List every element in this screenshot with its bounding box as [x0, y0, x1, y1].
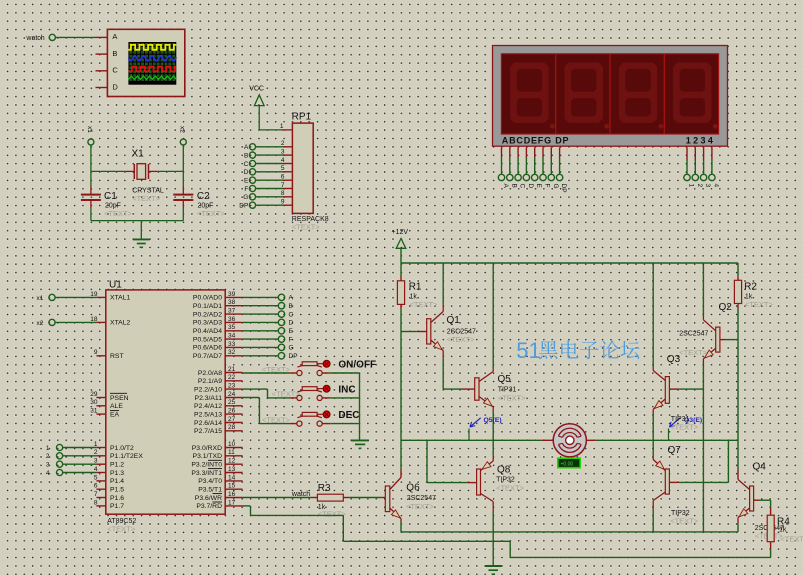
svg-text:<TEXT>: <TEXT>: [104, 209, 133, 218]
svg-text:ALE: ALE: [110, 403, 123, 410]
svg-text:DP: DP: [560, 184, 567, 193]
svg-text:P3.7/RD: P3.7/RD: [196, 503, 222, 510]
svg-text:A: A: [289, 295, 294, 302]
svg-text:<TEXT>: <TEXT>: [410, 300, 439, 309]
svg-text:watch: watch: [291, 491, 310, 498]
svg-text:<TEXT>: <TEXT>: [197, 209, 226, 218]
svg-text:XTAL2: XTAL2: [110, 320, 130, 327]
svg-text:14: 14: [228, 474, 236, 481]
svg-text:P2.0/A8: P2.0/A8: [198, 370, 222, 377]
svg-text:C: C: [289, 311, 294, 318]
svg-text:P0.2/AD2: P0.2/AD2: [193, 311, 222, 318]
svg-text:30: 30: [90, 399, 98, 406]
svg-text:DEC: DEC: [338, 410, 359, 421]
svg-text:D: D: [244, 169, 249, 176]
svg-text:C2: C2: [197, 191, 210, 202]
svg-text:P2.6/A14: P2.6/A14: [194, 420, 222, 427]
svg-text:9: 9: [281, 199, 285, 206]
svg-text:13: 13: [228, 466, 236, 473]
svg-text:EA: EA: [110, 411, 120, 418]
svg-text:Q7: Q7: [668, 445, 682, 456]
svg-text:P2.1/A9: P2.1/A9: [198, 378, 222, 385]
svg-text:25: 25: [228, 399, 236, 406]
svg-text:B: B: [244, 152, 248, 159]
svg-text:E: E: [535, 184, 542, 189]
svg-text:G: G: [552, 184, 559, 189]
svg-text:22: 22: [228, 374, 236, 381]
svg-text:<TEXT>: <TEXT>: [132, 194, 161, 203]
svg-text:P2.3/A11: P2.3/A11: [195, 395, 223, 402]
svg-text:<TEXT>: <TEXT>: [670, 422, 699, 431]
svg-text:2: 2: [281, 140, 285, 147]
svg-text:26: 26: [228, 408, 236, 415]
svg-text:+12V: +12V: [392, 229, 409, 236]
svg-text:21: 21: [228, 366, 236, 373]
svg-text:8: 8: [94, 499, 98, 506]
svg-text:31: 31: [90, 408, 98, 415]
svg-text:<TEXT>: <TEXT>: [318, 509, 347, 518]
svg-text:G: G: [243, 194, 248, 201]
svg-text:3: 3: [46, 462, 50, 469]
svg-text:2SC2547: 2SC2547: [407, 495, 436, 502]
svg-text:15: 15: [228, 483, 236, 490]
svg-text:1234: 1234: [686, 136, 716, 146]
svg-text:PSEN: PSEN: [110, 395, 129, 402]
svg-text:C1: C1: [104, 191, 117, 202]
svg-text:12: 12: [228, 458, 236, 465]
svg-text:29: 29: [90, 391, 98, 398]
svg-text:24: 24: [228, 391, 236, 398]
svg-text:<TEXT>: <TEXT>: [670, 516, 699, 525]
svg-text:P3.3/INT1: P3.3/INT1: [191, 470, 222, 477]
svg-text:Q8: Q8: [497, 465, 511, 476]
svg-text:x1: x1: [37, 295, 44, 302]
svg-text:P0.5/AD5: P0.5/AD5: [193, 336, 222, 343]
svg-text:39: 39: [228, 291, 236, 298]
svg-text:9: 9: [94, 349, 98, 356]
svg-text:4: 4: [281, 157, 285, 164]
svg-text:P0.4/AD4: P0.4/AD4: [193, 328, 222, 335]
svg-text:INC: INC: [338, 384, 355, 395]
svg-text:P0.7/AD7: P0.7/AD7: [193, 353, 222, 360]
svg-text:P1.3: P1.3: [110, 470, 124, 477]
svg-text:<TEXT>: <TEXT>: [107, 525, 136, 534]
svg-text:Q1: Q1: [447, 315, 461, 326]
svg-text:C: C: [244, 161, 249, 168]
svg-text:3: 3: [704, 184, 711, 188]
svg-text:P1.7: P1.7: [110, 503, 124, 510]
svg-text:P3.4/T0: P3.4/T0: [198, 478, 222, 485]
svg-text:VCC: VCC: [249, 86, 264, 93]
svg-text:ABCDEFG DP: ABCDEFG DP: [502, 136, 570, 146]
svg-text:38: 38: [228, 299, 236, 306]
svg-text:P2.5/A13: P2.5/A13: [194, 411, 222, 418]
svg-text:Q6: Q6: [406, 482, 420, 493]
svg-text:28: 28: [228, 424, 236, 431]
svg-text:F: F: [244, 186, 248, 193]
svg-text:C: C: [519, 184, 526, 189]
svg-text:1: 1: [688, 184, 695, 188]
svg-text:B: B: [112, 49, 117, 58]
svg-text:7: 7: [94, 491, 98, 498]
svg-text:P2.4/A12: P2.4/A12: [194, 403, 222, 410]
svg-text:A: A: [244, 144, 249, 151]
svg-text:P1.6: P1.6: [110, 495, 124, 502]
svg-text:<TEXT>: <TEXT>: [498, 393, 527, 402]
svg-text:P3.2/INT0: P3.2/INT0: [191, 462, 222, 469]
svg-text:Q5(E): Q5(E): [484, 417, 502, 424]
svg-text:X1: X1: [132, 149, 145, 160]
svg-text:P2.7/A15: P2.7/A15: [194, 428, 222, 435]
svg-text:51: 51: [516, 338, 540, 363]
svg-text:ON/OFF: ON/OFF: [338, 359, 376, 370]
svg-text:5: 5: [94, 474, 98, 481]
svg-text:x1: x1: [86, 126, 93, 133]
svg-text:D: D: [289, 320, 294, 327]
svg-text:x2: x2: [179, 126, 186, 133]
svg-text:36: 36: [228, 316, 236, 323]
svg-text:x2: x2: [37, 320, 44, 327]
svg-text:P3.0/RXD: P3.0/RXD: [192, 445, 222, 452]
svg-text:1k: 1k: [779, 527, 787, 534]
svg-text:8: 8: [281, 190, 285, 197]
svg-text:R2: R2: [744, 281, 757, 292]
svg-text:6: 6: [281, 174, 285, 181]
svg-text:F: F: [289, 336, 293, 343]
svg-text:watch: watch: [25, 35, 44, 42]
svg-text:R1: R1: [409, 281, 422, 292]
svg-text:P0.3/AD3: P0.3/AD3: [193, 320, 222, 327]
svg-text:<TEXT>: <TEXT>: [780, 534, 803, 543]
svg-text:R3: R3: [318, 483, 331, 494]
svg-text:16: 16: [228, 491, 236, 498]
svg-text:B: B: [289, 303, 293, 310]
svg-text:23: 23: [228, 383, 236, 390]
svg-text:<TEXT>: <TEXT>: [406, 502, 435, 511]
svg-text:P3.6/WR: P3.6/WR: [195, 495, 222, 502]
svg-text:1: 1: [46, 445, 50, 452]
svg-text:RST: RST: [110, 353, 124, 360]
svg-text:10: 10: [228, 441, 236, 448]
svg-text:34: 34: [228, 333, 236, 340]
svg-text:1: 1: [280, 123, 284, 130]
svg-text:RP1: RP1: [292, 112, 312, 123]
svg-text:32: 32: [228, 349, 236, 356]
svg-text:3: 3: [281, 149, 285, 156]
svg-text:37: 37: [228, 308, 236, 315]
svg-text:P2.2/A10: P2.2/A10: [194, 386, 222, 393]
svg-text:D: D: [112, 82, 118, 91]
svg-text:P1.4: P1.4: [110, 478, 124, 485]
svg-text:Q3: Q3: [667, 354, 681, 365]
svg-text:33: 33: [228, 341, 236, 348]
svg-text:P1.1/T2EX: P1.1/T2EX: [110, 453, 143, 460]
svg-text:5: 5: [281, 165, 285, 172]
svg-text:F: F: [544, 184, 551, 188]
svg-text:7: 7: [281, 182, 285, 189]
svg-text:2: 2: [46, 453, 50, 460]
svg-text:P1.2: P1.2: [110, 462, 124, 469]
svg-text:Q4: Q4: [753, 462, 767, 473]
svg-text:17: 17: [228, 499, 236, 506]
svg-text:E: E: [244, 178, 249, 185]
svg-text:4: 4: [46, 470, 50, 477]
svg-text:<TEXT>: <TEXT>: [496, 483, 525, 492]
svg-text:XTAL1: XTAL1: [110, 295, 130, 302]
svg-text:DP: DP: [289, 353, 298, 360]
svg-text:U1: U1: [109, 279, 122, 290]
svg-text:2: 2: [696, 184, 703, 188]
svg-text:A: A: [112, 32, 117, 41]
svg-text:27: 27: [228, 416, 236, 423]
svg-text:P0.6/AD6: P0.6/AD6: [193, 345, 222, 352]
svg-text:C: C: [112, 66, 118, 75]
svg-text:+0.00: +0.00: [561, 462, 574, 468]
svg-text:<TEXT>: <TEXT>: [292, 222, 321, 231]
svg-text:A: A: [502, 184, 509, 189]
svg-text:6: 6: [94, 483, 98, 490]
svg-text:P0.1/AD1: P0.1/AD1: [193, 303, 222, 310]
svg-text:Q5: Q5: [498, 374, 512, 385]
svg-text:4: 4: [712, 184, 719, 188]
svg-text:35: 35: [228, 324, 236, 331]
svg-text:2SC2547: 2SC2547: [679, 330, 708, 337]
svg-text:G: G: [289, 345, 294, 352]
svg-text:P1.0/T2: P1.0/T2: [110, 445, 134, 452]
svg-text:P3.5/T1: P3.5/T1: [198, 487, 222, 494]
svg-text:Q2: Q2: [719, 302, 733, 313]
svg-text:11: 11: [228, 449, 235, 456]
svg-text:<TEXT>: <TEXT>: [447, 335, 476, 344]
svg-text:DP: DP: [239, 203, 248, 210]
svg-text:<TEXT>: <TEXT>: [679, 348, 708, 357]
svg-text:P1.5: P1.5: [110, 487, 124, 494]
svg-text:D: D: [527, 184, 534, 189]
svg-text:<TEXT>: <TEXT>: [745, 300, 774, 309]
svg-text:B: B: [510, 184, 517, 188]
svg-text:P3.1/TXD: P3.1/TXD: [193, 453, 223, 460]
svg-text:P0.0/AD0: P0.0/AD0: [193, 295, 222, 302]
svg-text:E: E: [289, 328, 294, 335]
